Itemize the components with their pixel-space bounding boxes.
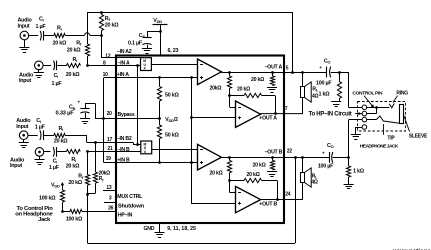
wire bus to B2+: [191, 203, 235, 205]
svg-text:1 µF: 1 µF: [52, 81, 63, 87]
wire feedback rail bottom: [87, 195, 89, 244]
svg-text:1 µF: 1 µF: [35, 125, 46, 131]
svg-text:26: 26: [108, 206, 114, 212]
svg-text:Ci: Ci: [54, 73, 59, 79]
svg-text:20 kΩ: 20 kΩ: [247, 172, 260, 178]
svg-text:24: 24: [285, 192, 291, 198]
jack terminal control: [362, 111, 367, 116]
pin 20 wire Bypass: [95, 118, 159, 120]
svg-text:Ci: Ci: [39, 16, 44, 22]
svg-text:50 kΩ: 50 kΩ: [165, 93, 179, 99]
leader ring: [393, 96, 398, 103]
svg-text:VDD/2: VDD/2: [165, 117, 178, 123]
resistor 20k B2 feedback: [230, 180, 244, 182]
node bypass junction: [102, 117, 105, 120]
svg-text:13: 13: [106, 185, 112, 191]
resistor 100k series: [62, 211, 70, 213]
capacitor Ci input 3: [28, 135, 38, 137]
node 20k gnd B: [271, 156, 274, 159]
ring contact lever: [389, 103, 394, 107]
svg-text:−IN A2: −IN A2: [117, 49, 132, 55]
svg-text:20 kΩ: 20 kΩ: [53, 40, 67, 46]
svg-text:Ri: Ri: [73, 57, 78, 63]
svg-text:20 kΩ: 20 kΩ: [66, 72, 80, 78]
svg-text:To HP−IN Circuit: To HP−IN Circuit: [309, 111, 352, 117]
arrow to hp-in: [355, 113, 360, 115]
node speaker A top: [301, 71, 304, 74]
wire sleeve contact: [356, 127, 362, 129]
node speaker B top: [301, 156, 304, 159]
svg-text:−IN B2: −IN B2: [117, 136, 132, 142]
svg-text:20 kΩ: 20 kΩ: [210, 171, 223, 177]
wire A2 inverting input: [229, 96, 231, 107]
wire mux link vertical: [137, 65, 139, 144]
ground below Cs: [147, 45, 149, 49]
resistor Ri input 1: [54, 33, 65, 37]
IC boundary LM4888: [116, 56, 284, 224]
wire -INB2 jog into mux B: [133, 142, 135, 144]
resistor Ri input 3: [54, 133, 65, 137]
leader control pin: [364, 96, 373, 107]
node A2 input tap: [228, 71, 231, 74]
svg-text:Input: Input: [19, 78, 31, 84]
wire +INA corner to bypass vertical: [103, 78, 105, 163]
node rail at -OUTA: [291, 71, 294, 74]
pin 3 wire Shutdown stub: [104, 202, 116, 204]
svg-text:21: 21: [108, 146, 114, 152]
wire Ci to Ri input 2: [57, 65, 66, 67]
wire +OUTA: [261, 113, 303, 115]
svg-text:VDD: VDD: [153, 18, 162, 24]
ground GND pin: [155, 232, 165, 234]
wire -OUTA to Co: [303, 72, 327, 74]
resistor 20k to gnd A: [272, 72, 274, 76]
resistor Rf2 (-INA feedback): [85, 44, 89, 56]
resistor Ri input 4: [66, 149, 80, 153]
wire rail left drop to Rf2: [87, 12, 89, 44]
svg-text:VDD: VDD: [51, 183, 60, 189]
resistor 20k to gnd B: [272, 157, 274, 160]
svg-text:10: 10: [103, 72, 109, 78]
svg-text:Ci: Ci: [53, 158, 58, 164]
svg-text:SLEEVE: SLEEVE: [409, 134, 428, 140]
GND pin wire: [159, 223, 161, 232]
node B2 input tap: [228, 156, 231, 159]
pin 12 wire -INA2: [101, 57, 141, 59]
node 50kB at +INB: [158, 161, 161, 164]
wire Ci to Ri input 1: [44, 35, 54, 37]
svg-text:TIP: TIP: [387, 136, 395, 142]
wire ring contact: [367, 107, 390, 109]
ground 20k B: [267, 171, 277, 173]
svg-text:+IN A: +IN A: [117, 72, 129, 78]
svg-text:−OUT B: −OUT B: [265, 149, 283, 155]
resistor Ri input 2: [67, 63, 81, 67]
sleeve bar: [400, 105, 404, 124]
node -INB2 at RfB2: [94, 141, 97, 144]
wire Ci to Ri input 3: [44, 135, 54, 137]
svg-text:+IN B: +IN B: [117, 158, 130, 164]
svg-text:0.33 µF: 0.33 µF: [56, 111, 75, 117]
svg-text:50 kΩ: 50 kΩ: [165, 133, 179, 139]
capacitor Ci input 1: [43, 31, 45, 41]
svg-text:−IN A: −IN A: [118, 60, 130, 66]
node 50kA at +INA: [158, 76, 161, 79]
svg-text:1 kΩ: 1 kΩ: [319, 91, 331, 97]
svg-text:20 kΩ: 20 kΩ: [251, 77, 264, 83]
wire to HP-IN pin 26: [82, 211, 116, 213]
svg-text:9, 11, 18, 25: 9, 11, 18, 25: [167, 226, 196, 232]
resistor 1k B: [348, 157, 350, 166]
svg-text:6, 23: 6, 23: [168, 48, 179, 54]
resistor 20k B2 input: [229, 157, 231, 160]
op-amp A1: [198, 59, 222, 85]
svg-text:20 kΩ: 20 kΩ: [67, 48, 81, 54]
speaker RL 4ohm B: [302, 157, 304, 172]
svg-text:4Ω: 4Ω: [311, 180, 318, 186]
mux A box: [141, 58, 152, 71]
ground below jack J2: [38, 70, 40, 73]
wire input3 to pin 17: [65, 135, 87, 137]
ground sleeve: [351, 134, 361, 136]
resistor Rf1 (-INA2 feedback): [101, 12, 103, 15]
svg-text:CO: CO: [327, 143, 334, 149]
node headphone A: [338, 71, 341, 74]
svg-text:CS: CS: [139, 33, 146, 39]
svg-text:Bypass: Bypass: [118, 112, 135, 118]
svg-text:1 µF: 1 µF: [36, 24, 47, 30]
node rail at -OUTB: [294, 156, 297, 159]
ground below Cb: [85, 113, 87, 119]
svg-text:100 µF: 100 µF: [316, 80, 332, 86]
capacitor Cs: [142, 37, 151, 39]
node bus at +INB: [190, 161, 193, 164]
wire mux B out to B1: [152, 149, 198, 151]
jack terminal tip: [362, 117, 367, 122]
resistor 50k B: [159, 118, 161, 125]
wire Co to node A: [331, 72, 349, 74]
wire B to jack tip: [348, 120, 350, 158]
svg-text:CO: CO: [324, 59, 331, 65]
wire rail right drop to -OUTA: [292, 12, 294, 72]
svg-text:RING: RING: [396, 91, 408, 97]
svg-text:−OUT A: −OUT A: [265, 64, 283, 70]
node +INA to A2 vertical: [190, 76, 193, 79]
svg-text:Ri: Ri: [57, 26, 62, 32]
svg-text:22: 22: [287, 149, 293, 155]
svg-text:19: 19: [106, 156, 112, 162]
audio input 3 jack J3: [19, 131, 28, 140]
resistor 100k pullup: [60, 190, 64, 202]
audio input 2 jack J2: [35, 61, 44, 70]
svg-text:17: 17: [107, 137, 113, 143]
svg-text:+OUT A: +OUT A: [259, 115, 277, 121]
ground below jack J4: [39, 156, 41, 160]
node B2 feedback at +OUTB: [276, 198, 279, 201]
resistor RfB2 (-INB2 feedback): [95, 142, 97, 172]
svg-text:20 kΩ: 20 kΩ: [253, 163, 266, 169]
svg-text:Ri: Ri: [71, 157, 76, 163]
svg-text:Shutdown: Shutdown: [118, 204, 145, 210]
svg-text:1 kΩ: 1 kΩ: [353, 169, 365, 175]
wire B2 feedback to +OUTB: [277, 181, 279, 199]
wire Ri to node, hop over Rf2 wire: [65, 35, 84, 37]
resistor RfB1 (-INB feedback): [87, 152, 89, 175]
node mux link at -INB2: [136, 143, 139, 146]
wire A2+ from bus: [191, 117, 235, 119]
node headphone B: [347, 156, 350, 159]
ground 1k A: [339, 98, 341, 102]
pin 10 wire +INA: [104, 77, 198, 79]
svg-text:HP−IN: HP−IN: [118, 212, 133, 218]
svg-text:−IN B: −IN B: [117, 147, 130, 153]
speaker RL 4ohm A: [302, 72, 304, 87]
svg-text:Input: Input: [10, 163, 22, 169]
ground 20k A: [267, 87, 277, 89]
node rail at Rf1: [100, 11, 103, 14]
wire -OUTA: [221, 72, 303, 74]
op-amp B1: [198, 144, 222, 170]
svg-text:Jack: Jack: [38, 217, 51, 223]
ground below jack J3: [23, 139, 25, 142]
node A2 inverting node: [228, 94, 231, 97]
svg-text:20 kΩ: 20 kΩ: [54, 139, 68, 145]
svg-text:20 kΩ: 20 kΩ: [68, 180, 82, 186]
mux B box: [141, 141, 152, 154]
wire noninverting bus vertical: [191, 78, 193, 203]
node -INA2 junction: [100, 34, 103, 37]
wire Ci to Ri input 4: [57, 151, 66, 153]
svg-text:12: 12: [105, 53, 111, 59]
svg-text:20: 20: [107, 111, 113, 117]
svg-text:Ci: Ci: [36, 118, 41, 124]
ground 1k B: [348, 177, 350, 184]
resistor 50k A: [159, 78, 161, 87]
wire +OUTB: [261, 199, 303, 201]
capacitor Ci input 2: [43, 65, 51, 67]
op-amp A2: [236, 101, 261, 127]
svg-text:20 kΩ: 20 kΩ: [66, 164, 80, 170]
wire tip contact: [367, 119, 377, 121]
node input2 at Rf2: [86, 64, 89, 67]
svg-text:20 kΩ: 20 kΩ: [105, 23, 119, 29]
audio input 4 jack J4: [35, 148, 44, 157]
wire Vdd to Cs: [147, 31, 160, 33]
svg-text:CONTROL PIN: CONTROL PIN: [352, 91, 383, 97]
leader tip: [383, 124, 385, 135]
node Vdd: [159, 30, 162, 33]
wire -INB to pin 21: [88, 151, 141, 153]
wire -INA2 node down to pin 12: [101, 36, 103, 58]
svg-text:1 µF: 1 µF: [49, 165, 60, 171]
resistor 20k A2 input: [229, 72, 231, 76]
wire Co to node B: [333, 157, 349, 159]
wire -OUTB: [221, 157, 303, 159]
jack terminal sleeve: [362, 125, 367, 130]
wire mux A out to A1: [151, 64, 197, 66]
svg-text:20kΩ: 20kΩ: [210, 86, 222, 92]
svg-text:100 µF: 100 µF: [318, 164, 334, 170]
node 20k gnd A: [271, 71, 274, 74]
wire feedback rail top: [87, 12, 292, 14]
wire control contact: [357, 113, 363, 115]
svg-text:100 kΩ: 100 kΩ: [39, 196, 56, 202]
svg-text:20 kΩ: 20 kΩ: [237, 87, 250, 93]
svg-text:+OUT B: +OUT B: [259, 201, 277, 207]
node A2 feedback at +OUTA: [274, 112, 277, 115]
wire A to jack ring: [348, 72, 350, 107]
node control tap: [375, 106, 378, 109]
svg-text:HEADPHONE JACK: HEADPHONE JACK: [360, 144, 399, 150]
svg-text:Ri: Ri: [59, 126, 64, 132]
capacitor Cb bypass: [85, 103, 95, 105]
node bus at A2+: [190, 116, 193, 119]
wire -OUTB to Co: [303, 157, 329, 159]
wire A2 feedback to +OUTA: [275, 96, 277, 114]
resistor 20k A2 feedback: [230, 95, 244, 97]
headphone jack dashed box: [358, 102, 406, 132]
node -INA to mux link: [136, 64, 139, 67]
wire -INA to pin 8: [87, 65, 140, 67]
leader sleeve: [404, 115, 410, 132]
svg-text:MUX CTRL: MUX CTRL: [117, 194, 143, 200]
Vdd supply arrow bottom: [62, 185, 64, 191]
svg-text:Input: Input: [18, 23, 30, 29]
op-amp B2: [236, 186, 261, 212]
wire B2 inverting input: [229, 181, 231, 193]
Vdd supply symbol top: [153, 24, 168, 26]
capacitor Ci input 4: [44, 151, 51, 153]
node input4 at RfB1: [86, 150, 89, 153]
svg-text:GND: GND: [144, 226, 155, 232]
capacitor Co B: [329, 152, 331, 163]
resistor 1k A: [339, 72, 341, 82]
tip contact lever: [376, 116, 399, 123]
node Vdd/2: [158, 117, 161, 120]
svg-text:100 kΩ: 100 kΩ: [66, 217, 83, 223]
pin 13 wire MUX CTRL stub: [103, 190, 116, 192]
node RfB join: [86, 193, 89, 196]
audio input 1 jack J1: [20, 31, 29, 40]
capacitor Co A: [326, 67, 328, 78]
node control pin: [61, 210, 64, 213]
ground below jack J1: [24, 40, 26, 48]
pin 19 wire +INB: [104, 162, 198, 164]
svg-text:0.1 µF: 0.1 µF: [128, 41, 143, 47]
svg-text:Input: Input: [16, 124, 28, 130]
node B2 inverting node: [228, 179, 231, 182]
jack terminal ring: [362, 105, 367, 110]
